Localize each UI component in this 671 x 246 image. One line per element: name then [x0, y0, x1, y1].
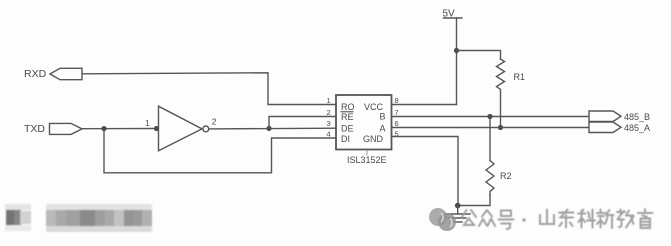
mosaic censored band [46, 209, 152, 226]
junction R2-B [487, 114, 492, 119]
power 5V rail bar [444, 17, 463, 19]
wire A line pin6 to connector [392, 127, 590, 129]
inverter output bubble [203, 126, 209, 132]
pin number 4 [327, 130, 331, 139]
connector TXD [50, 123, 83, 134]
junction TXD branch [101, 126, 106, 131]
pin label DE [341, 124, 354, 134]
resistor R2 label [500, 171, 512, 181]
wire R1 to A line [500, 92, 502, 128]
junction inverter input [154, 126, 159, 131]
pin number 1 [327, 96, 331, 105]
pin label B [380, 112, 386, 122]
connector 485_B [589, 111, 621, 122]
pin number 2 [327, 108, 331, 117]
育 [638, 209, 653, 228]
interpunct [522, 218, 525, 221]
wire 5V down to VCC [456, 18, 458, 105]
山 [540, 210, 554, 225]
node 485_A label [624, 123, 650, 133]
inverter pin 1 label [145, 118, 150, 128]
pin number 3 [327, 119, 331, 128]
pin label DI [341, 134, 350, 144]
mosaic censored block left [0, 198, 170, 240]
connector RXD [50, 68, 82, 79]
inverter pin 2 label [212, 117, 217, 127]
pin label RE with overline [341, 112, 354, 122]
node RXD label [24, 68, 47, 80]
junction ground [455, 203, 461, 209]
公 [462, 210, 476, 225]
resistor R1 [497, 59, 505, 92]
pin label A [380, 124, 386, 134]
pin number 6 [395, 119, 399, 128]
wire down to earth [457, 206, 459, 214]
pin label RO [341, 102, 355, 112]
wire GND pin5 [392, 137, 459, 206]
wire TXD to inverter input [82, 128, 159, 130]
wire R2 to ground [458, 195, 491, 206]
junction inverter output branch [266, 126, 271, 131]
号 [499, 211, 514, 230]
IC U1 ISL3152E body [336, 95, 392, 150]
pin number 8 [395, 96, 399, 105]
wire 5V branch to R1 [457, 51, 501, 60]
inverter U2 triangle [159, 106, 203, 151]
新 [597, 210, 614, 229]
wire branch up to RE pin2 [269, 117, 336, 129]
ground earth symbol [444, 214, 470, 222]
教 [617, 210, 634, 228]
resistor R1 label [514, 72, 526, 82]
pin label GND [363, 134, 384, 144]
power 5V label [443, 9, 456, 20]
scan artifact tick below IC [366, 151, 368, 156]
pin label VCC [364, 102, 384, 112]
wire B to R2 [489, 117, 491, 161]
wire inverter output to DE pin3 [209, 127, 336, 130]
connector 485_A [589, 122, 621, 133]
watermark logo [429, 208, 456, 231]
众 [479, 210, 495, 226]
pin number 5 [395, 130, 399, 139]
junction R1-A [498, 125, 503, 130]
wire VCC pin8 [392, 104, 457, 106]
东 [559, 210, 574, 228]
junction 5V branch [454, 48, 459, 53]
wire RXD to RO pin1 [82, 73, 336, 105]
resistor R2 [486, 161, 494, 196]
科 [578, 210, 595, 228]
wire TXD bypass to DI pin4 [104, 129, 336, 173]
node TXD label [24, 123, 45, 135]
wire B line pin7 to connector [392, 116, 590, 118]
pin number 7 [395, 108, 399, 117]
node 485_B label [624, 112, 650, 122]
IC U1 name label [347, 155, 387, 165]
